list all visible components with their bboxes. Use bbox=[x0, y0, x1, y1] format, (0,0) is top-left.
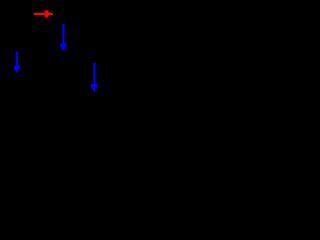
blue arrow right (downward) bbox=[91, 63, 97, 92]
blue arrow center (downward) bbox=[60, 24, 66, 51]
red arrow (rightward, head mid-line) bbox=[34, 10, 53, 17]
blue arrow left (downward) bbox=[14, 52, 20, 73]
background bbox=[0, 0, 125, 106]
